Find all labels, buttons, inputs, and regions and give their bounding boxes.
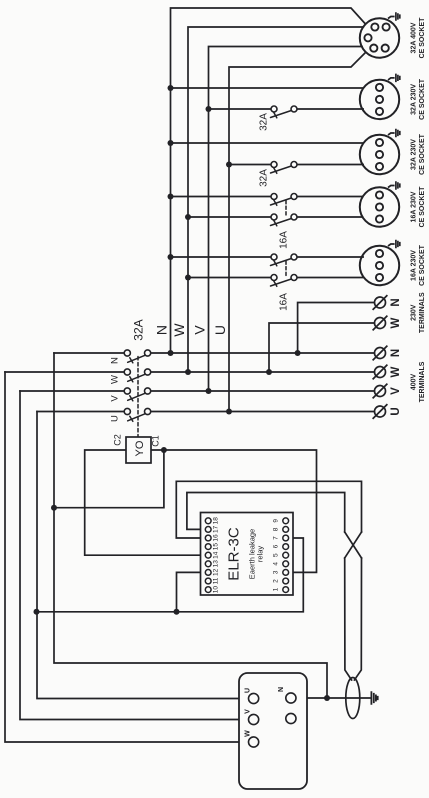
svg-text:230V: 230V <box>411 304 418 321</box>
junction dot 230V N feed / N row <box>295 350 301 356</box>
wire: 230V N terminal feed <box>298 303 375 354</box>
junction dot C1 to N feed <box>51 505 57 511</box>
svg-text:16A 230V: 16A 230V <box>411 191 418 222</box>
svg-text:C2: C2 <box>113 434 123 446</box>
svg-text:CE SOCKET: CE SOCKET <box>419 244 426 286</box>
svg-text:W: W <box>390 317 402 328</box>
plug pin V <box>249 714 259 724</box>
breaker F3 16A two-pole (socket X4) <box>271 194 298 226</box>
terminal 230V N <box>373 295 388 310</box>
junction dot C1 branch <box>161 447 167 453</box>
label 32A 230V CE SOCKET <box>411 78 427 120</box>
svg-text:W: W <box>390 366 402 377</box>
earth clip of socket X5 <box>388 240 400 249</box>
svg-text:U: U <box>212 325 228 335</box>
svg-text:5: 5 <box>273 553 280 557</box>
svg-text:2: 2 <box>273 579 280 583</box>
junction dot N bus / X2 top <box>168 85 174 91</box>
junction dot N at CT wire <box>324 695 330 701</box>
wire: W feed down-left to plug W pin <box>5 372 249 742</box>
breaker F4 16A two-pole (socket X5) <box>271 254 298 286</box>
svg-text:32A: 32A <box>259 113 270 131</box>
svg-text:relay: relay <box>256 546 265 563</box>
svg-text:16A 230V: 16A 230V <box>411 250 418 281</box>
wire: coil C2 to ELR pin 14 <box>85 450 206 555</box>
label Eaerth leakage relay <box>248 529 265 579</box>
svg-text:CE SOCKET: CE SOCKET <box>419 133 426 175</box>
ELR right pins 1-9 <box>283 518 289 593</box>
label 230V TERMINALS <box>411 292 427 333</box>
terminal 230V W <box>373 316 388 331</box>
wire: N bus tap to socket X3 top <box>171 142 364 144</box>
wire: N bus tap to breaker F4 pole a (socket X5 top) <box>171 256 364 258</box>
plug P1 body <box>239 673 307 789</box>
svg-text:ELR-3C: ELR-3C <box>226 527 243 581</box>
wire: W bus vertical with top run to socket X1 <box>188 27 363 372</box>
wire: N bus tap to breaker F3 pole a (socket X4 top) <box>171 196 363 198</box>
contactor K1 pole U <box>124 408 150 421</box>
wire: ELR supply from U feed to pin 7 <box>37 538 304 612</box>
svg-text:U: U <box>245 688 252 693</box>
ELR left pins 10-18 <box>205 518 211 593</box>
svg-text:V: V <box>110 395 121 402</box>
label 16A 230V CE SOCKET <box>411 244 427 286</box>
svg-text:TERMINALS: TERMINALS <box>419 292 426 333</box>
plug pin earth <box>286 713 296 723</box>
wire: contactor U pole row to 400V U terminal <box>37 411 374 413</box>
earth clip of socket X4 <box>388 181 400 190</box>
terminal 400V V <box>373 384 388 399</box>
svg-text:9: 9 <box>273 519 280 523</box>
svg-text:TERMINALS: TERMINALS <box>419 361 426 402</box>
svg-text:C1: C1 <box>151 435 161 447</box>
svg-text:W: W <box>110 375 121 384</box>
svg-text:18: 18 <box>213 517 220 525</box>
junction dot W bus / X5 bottom <box>185 275 191 281</box>
label 16A 230V CE SOCKET <box>411 186 427 228</box>
svg-text:32A: 32A <box>259 169 270 187</box>
wire: W bus tap to breaker F4 pole b (socket X5 bottom) <box>188 277 363 279</box>
wire: V bus vertical with top run to socket X1 <box>209 47 363 392</box>
svg-text:8: 8 <box>273 527 280 531</box>
breaker F2 32A single-pole (socket X3) <box>271 162 298 174</box>
svg-text:V: V <box>245 709 252 714</box>
socket X3 32A 230V CE socket <box>360 135 399 174</box>
svg-text:W: W <box>171 323 187 337</box>
svg-text:CE SOCKET: CE SOCKET <box>419 186 426 228</box>
wire: twisted pair crossover X <box>345 532 362 558</box>
junction dot U bus / X3 bottom <box>226 162 232 168</box>
wire: U feed down-left to plug U pin <box>37 412 249 699</box>
svg-text:32A 230V: 32A 230V <box>411 139 418 170</box>
wire: contactor W pole row to 400V W terminal <box>5 371 374 373</box>
wire: coil C1 run to ELR pin 3 <box>151 450 317 572</box>
svg-text:3: 3 <box>273 570 280 574</box>
svg-text:16A: 16A <box>279 293 290 311</box>
plug pin W <box>249 737 259 747</box>
wire: twisted pair lower strands converging into CT <box>345 558 362 680</box>
terminal 400V N <box>373 346 388 361</box>
label 400V TERMINALS <box>411 361 427 402</box>
label 32A 230V CE SOCKET <box>411 133 427 175</box>
junction dot N bus / X4 top <box>168 194 174 200</box>
contactor K1 pole W <box>124 369 150 382</box>
svg-text:N: N <box>278 687 285 692</box>
junction dot V bus / V row <box>206 388 212 394</box>
wire: V feed down-left to plug V pin <box>20 391 249 720</box>
svg-text:N: N <box>390 298 402 306</box>
junction dot N bus / N row <box>168 350 174 356</box>
svg-text:V: V <box>192 325 208 335</box>
svg-text:U: U <box>110 415 121 422</box>
wire: N bus vertical with top run to socket X1 <box>171 8 366 353</box>
wire: U bus tap to breaker F2 (socket X3 bottom) <box>229 164 363 166</box>
coil YO box <box>126 437 151 463</box>
contactor K1 pole V <box>124 388 150 401</box>
junction dot U bus / U row <box>226 409 232 415</box>
svg-text:N: N <box>154 325 170 335</box>
wire: contactor N pole row to 400V N terminal <box>54 352 374 354</box>
socket X5 16A 230V CE socket <box>360 246 399 285</box>
svg-text:10: 10 <box>213 586 220 594</box>
terminal 400V U <box>373 404 388 419</box>
ELR-3C relay U1 box <box>201 513 294 596</box>
earth clip of socket X2 <box>388 74 400 83</box>
svg-text:14: 14 <box>213 551 220 559</box>
wire: ELR pin 16 to CT (right strand upper) <box>176 481 361 538</box>
socket X4 16A 230V CE socket <box>360 187 399 226</box>
label 32A 400V CE SOCKET <box>411 17 427 59</box>
junction dot ELR supply on U feed <box>34 609 40 615</box>
mechanical link dashed <box>137 357 139 438</box>
svg-text:17: 17 <box>213 525 220 533</box>
junction dot W bus / X4 bottom <box>185 214 191 220</box>
junction dot ELR supply branch pin12 <box>174 609 180 615</box>
wire: coil C1 branch down to N feed <box>54 450 164 508</box>
wire: ELR supply branch to pin 12 <box>177 572 206 611</box>
junction dot 230V W feed / W row <box>266 369 272 375</box>
junction dot W bus / W row <box>185 369 191 375</box>
svg-text:32A 400V: 32A 400V <box>411 22 418 53</box>
svg-text:1: 1 <box>273 587 280 591</box>
wire: N bus tap to socket X2 top <box>171 87 364 89</box>
junction dot N bus / X5 top <box>168 254 174 260</box>
svg-text:V: V <box>390 387 402 395</box>
terminal 400V W <box>373 365 388 380</box>
svg-text:15: 15 <box>213 543 220 551</box>
ELR right pin numbers 1-9 <box>273 519 280 592</box>
wire: V bus tap to breaker F1 (socket X2 bottom) <box>209 108 364 110</box>
svg-text:U: U <box>390 407 402 415</box>
wire: 230V W terminal feed <box>269 323 374 372</box>
wire: plug N pin to earth electrode through CT <box>296 697 371 699</box>
earth clip of socket X3 <box>388 129 400 138</box>
svg-text:32A: 32A <box>132 319 146 340</box>
svg-text:N: N <box>390 349 402 357</box>
wire: N feed down-left to plug junction <box>54 353 327 698</box>
svg-text:16: 16 <box>213 534 220 542</box>
junction dot N bus / X3 top <box>168 140 174 146</box>
socket X2 32A 230V CE socket <box>360 80 399 119</box>
svg-text:W: W <box>245 730 252 737</box>
plug pin U <box>249 693 259 703</box>
svg-text:N: N <box>110 357 121 364</box>
wire: W bus tap to breaker F3 pole b (socket X4 bottom) <box>188 216 363 218</box>
svg-text:YO: YO <box>134 440 146 456</box>
earth electrode symbol <box>371 691 377 704</box>
earth clip of socket X1 <box>388 12 400 21</box>
svg-text:CE SOCKET: CE SOCKET <box>419 78 426 120</box>
svg-text:32A 230V: 32A 230V <box>411 84 418 115</box>
contactor K1 pole N <box>124 350 150 363</box>
wire: U bus vertical with top run to socket X1 <box>229 53 366 412</box>
current transformer toroid T1 <box>346 678 360 719</box>
wire: ELR pin 17 to CT (left strand upper) <box>187 493 345 533</box>
socket X1 32A 400V CE socket <box>360 18 399 57</box>
wire: contactor V pole row to 400V V terminal <box>20 390 374 392</box>
svg-text:CE SOCKET: CE SOCKET <box>419 17 426 59</box>
svg-text:6: 6 <box>273 544 280 548</box>
svg-text:7: 7 <box>273 536 280 540</box>
svg-text:400V: 400V <box>411 374 418 391</box>
junction dot V bus / X2 bottom <box>206 106 212 112</box>
ELR left pin numbers 10-18 <box>213 517 220 593</box>
plug pin N <box>286 693 296 703</box>
svg-text:12: 12 <box>213 568 220 576</box>
svg-text:13: 13 <box>213 560 220 568</box>
svg-text:11: 11 <box>213 577 220 584</box>
breaker F1 32A single-pole (socket X2) <box>271 106 298 118</box>
svg-text:16A: 16A <box>279 231 290 249</box>
svg-text:4: 4 <box>273 562 280 566</box>
